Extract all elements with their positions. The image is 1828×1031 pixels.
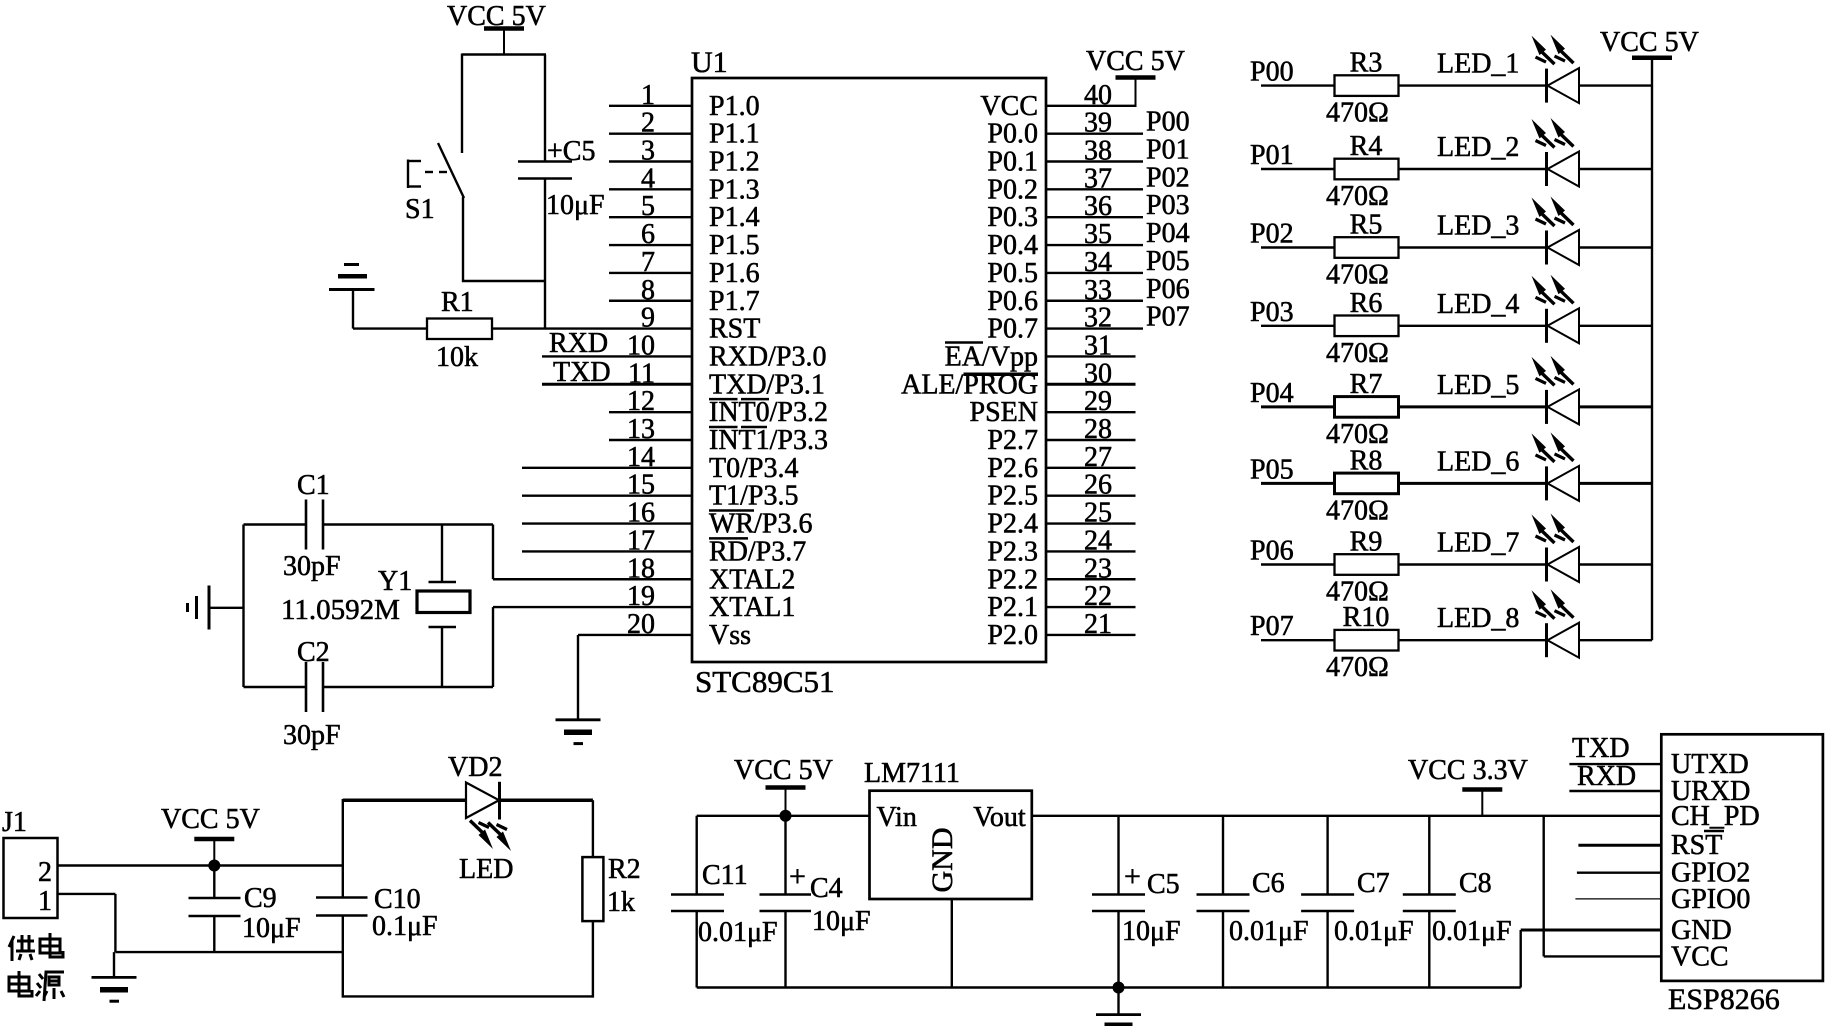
svg-text:VCC 5V: VCC 5V: [1086, 46, 1185, 77]
resistor R3: [1335, 75, 1399, 96]
svg-text:470Ω: 470Ω: [1326, 181, 1389, 212]
svg-text:P2.5: P2.5: [987, 481, 1038, 512]
wire R8 to LED_6: [1399, 482, 1547, 485]
svg-text:P1.3: P1.3: [709, 174, 760, 205]
svg-text:P0.3: P0.3: [987, 202, 1038, 233]
svg-text:RST: RST: [1671, 830, 1722, 861]
wire P03 to R6: [1261, 325, 1335, 327]
svg-text:P00: P00: [1250, 57, 1294, 88]
wire GPIO0 stub: [1575, 898, 1661, 900]
svg-text:CH_PD: CH_PD: [1671, 801, 1760, 832]
svg-text:P1.5: P1.5: [709, 230, 760, 261]
wire RST stub: [1578, 844, 1661, 847]
wire switch bottom branch: [462, 197, 464, 282]
svg-text:P03: P03: [1146, 190, 1190, 221]
power symbol VCC 5V LED bus: [1632, 56, 1672, 61]
resistor R9: [1335, 554, 1399, 575]
emission arrows LED_6: [1532, 433, 1547, 453]
ground (left-pointing, at crystal): [208, 586, 211, 630]
svg-text:P05: P05: [1146, 246, 1190, 277]
wire Vss down to ground: [577, 635, 579, 720]
wire ground to R1: [353, 327, 427, 329]
svg-text:P0.5: P0.5: [987, 258, 1038, 289]
overline RD (pin 17): [709, 537, 748, 540]
wire cap C5 top branch: [544, 55, 546, 162]
overline INT0 (pin 12): [709, 398, 738, 401]
module ESP8266 body: [1661, 734, 1823, 981]
svg-text:2: 2: [38, 857, 52, 888]
svg-text:30pF: 30pF: [283, 551, 341, 582]
wire P00 to R3: [1261, 84, 1335, 86]
svg-text:P0.0: P0.0: [987, 119, 1038, 150]
svg-text:VCC 5V: VCC 5V: [734, 755, 833, 786]
junction dot LM7111 input: [780, 810, 792, 822]
wire pin 23: [1046, 578, 1136, 580]
wire to ground bottom: [1117, 988, 1119, 1015]
svg-text:VD2: VD2: [448, 752, 502, 783]
power symbol VCC 5V pin40: [1116, 75, 1156, 80]
resistor R4: [1335, 159, 1399, 180]
wire pin 34: [1046, 272, 1143, 274]
svg-text:R2: R2: [608, 854, 641, 885]
svg-text:LED_3: LED_3: [1437, 211, 1519, 242]
svg-text:LED_8: LED_8: [1437, 603, 1519, 634]
wire pin 11 TXD: [542, 383, 692, 386]
wire top split: [462, 53, 546, 55]
wire P01 to R4: [1261, 168, 1335, 170]
svg-text:0.1μF: 0.1μF: [372, 911, 438, 942]
ground below J1 rail: [92, 976, 137, 979]
wire pin 21: [1046, 634, 1136, 636]
svg-text:P02: P02: [1146, 162, 1190, 193]
wire J1 pin1 down: [114, 894, 116, 952]
wire RXD to URXD: [1569, 790, 1661, 792]
svg-text:P01: P01: [1250, 140, 1294, 171]
wire loop bottom: [343, 995, 593, 997]
svg-text:P1.1: P1.1: [709, 119, 760, 150]
overline INT1 (pin 13): [709, 426, 738, 429]
emission arrows LED_8: [1532, 590, 1547, 610]
svg-text:Vin: Vin: [877, 802, 917, 833]
wire bottom gnd rail: [697, 986, 1521, 988]
svg-text:P02: P02: [1250, 219, 1294, 250]
svg-text:S1: S1: [405, 194, 435, 225]
svg-text:470Ω: 470Ω: [1326, 338, 1389, 369]
svg-text:10μF: 10μF: [1122, 916, 1181, 947]
wire pin 6: [609, 244, 692, 246]
LED LED_6: [1545, 466, 1548, 500]
wire pin 10 RXD: [542, 355, 692, 357]
wire pin 2: [609, 132, 692, 134]
wire J1 pin2 to VCC net: [58, 864, 343, 866]
wire LM7111 GND down: [951, 899, 953, 988]
power symbol VCC 5V top-left: [484, 26, 524, 31]
svg-text:C6: C6: [1252, 868, 1285, 899]
wire pin 8: [609, 300, 692, 302]
emission arrows LED_3: [1532, 198, 1547, 218]
wire pin 24: [1046, 550, 1136, 552]
emission arrows LED_5: [1532, 357, 1547, 377]
svg-text:GPIO0: GPIO0: [1671, 884, 1750, 915]
wire R6 to LED_4: [1399, 325, 1547, 327]
svg-text:LED_2: LED_2: [1437, 132, 1519, 163]
svg-text:RXD: RXD: [549, 328, 608, 359]
svg-text:R1: R1: [441, 287, 474, 318]
overline PROG (pin 30): [964, 373, 1039, 377]
capacitor C6: [1222, 816, 1224, 895]
svg-text:RXD/P3.0: RXD/P3.0: [709, 341, 826, 372]
capacitor C10 (in left edge of loop): [342, 799, 344, 898]
wire LED_5 to VCC bus: [1579, 405, 1652, 408]
svg-text:U1: U1: [691, 46, 728, 79]
wire LED_3 to VCC bus: [1579, 246, 1652, 248]
svg-text:RST: RST: [709, 314, 760, 345]
svg-text:470Ω: 470Ω: [1326, 495, 1389, 526]
svg-text:C1: C1: [297, 470, 330, 501]
LED LED_8: [1545, 623, 1548, 657]
svg-text:P1.0: P1.0: [709, 91, 760, 122]
wire pin 7: [609, 272, 692, 274]
diode VD2: [466, 783, 499, 819]
svg-text:C5: C5: [1147, 869, 1180, 900]
svg-text:VCC 5V: VCC 5V: [1600, 27, 1699, 58]
power symbol VCC 5V at J1: [194, 837, 234, 842]
LED LED_1: [1545, 69, 1548, 103]
wire loop right upper: [592, 800, 594, 857]
svg-text:XTAL2: XTAL2: [709, 564, 795, 595]
label 供电 (power supply) hand-drawn: [9, 933, 63, 961]
svg-text:P00: P00: [1146, 107, 1190, 138]
regulator LM7111 body: [870, 791, 1032, 899]
svg-text:P05: P05: [1250, 454, 1294, 485]
resistor R8: [1335, 473, 1399, 494]
svg-text:EA/Vpp: EA/Vpp: [945, 341, 1038, 372]
svg-text:P0.6: P0.6: [987, 286, 1038, 317]
svg-text:STC89C51: STC89C51: [695, 664, 835, 699]
svg-text:LED_5: LED_5: [1437, 370, 1519, 401]
wire input rail to Vin: [697, 815, 870, 817]
svg-text:P1.7: P1.7: [709, 286, 760, 317]
emission arrows LED_4: [1532, 276, 1547, 296]
wire pin 28: [1046, 439, 1136, 441]
wire switch top branch: [461, 54, 463, 154]
svg-text:RD/P3.7: RD/P3.7: [709, 536, 806, 567]
wire pin 26: [1046, 495, 1136, 497]
svg-text:P0.4: P0.4: [987, 230, 1038, 261]
wire to ESP GND: [1521, 929, 1662, 932]
overline EA (pin 31): [945, 341, 983, 344]
svg-text:+: +: [789, 860, 806, 893]
svg-text:+C5: +C5: [547, 136, 595, 167]
svg-text:P2.0: P2.0: [987, 620, 1038, 651]
wire pin 16: [522, 522, 692, 524]
svg-text:TXD/P3.1: TXD/P3.1: [709, 369, 825, 400]
svg-text:470Ω: 470Ω: [1326, 260, 1389, 291]
wire pin 38: [1046, 160, 1143, 162]
wire 3.3V down to ESP VCC: [1542, 816, 1544, 957]
wire P07 to R10: [1261, 639, 1335, 641]
svg-text:Vss: Vss: [709, 620, 751, 651]
svg-text:C8: C8: [1459, 868, 1492, 899]
svg-text:J1: J1: [2, 807, 27, 838]
svg-text:C11: C11: [702, 860, 748, 891]
svg-text:Y1: Y1: [378, 566, 412, 597]
wire pin 13: [609, 439, 692, 441]
capacitor C5 (electrolytic, top-left): [518, 160, 572, 163]
svg-text:0.01μF: 0.01μF: [1229, 916, 1309, 947]
wire loop top-left: [343, 798, 466, 802]
resistor R5: [1335, 237, 1399, 258]
LED LED_7: [1545, 548, 1548, 582]
svg-text:P1.6: P1.6: [709, 258, 760, 289]
wire LED VCC bus: [1651, 58, 1653, 640]
wire pin 5: [609, 216, 692, 218]
svg-text:P07: P07: [1250, 611, 1294, 642]
LED LED_4: [1545, 309, 1548, 343]
wire LED_1 to VCC bus: [1579, 84, 1652, 86]
power symbol VCC 3.3V: [1462, 787, 1502, 792]
svg-text:R3: R3: [1350, 48, 1383, 79]
wire pin 30: [1046, 383, 1136, 386]
resistor R7: [1335, 397, 1399, 418]
wire pin 4: [609, 188, 692, 190]
svg-text:P2.6: P2.6: [987, 453, 1038, 484]
wire pin 29: [1046, 411, 1136, 413]
svg-text:10μF: 10μF: [546, 190, 605, 221]
capacitor C8: [1428, 816, 1430, 895]
svg-text:10μF: 10μF: [242, 913, 301, 944]
svg-text:P06: P06: [1146, 274, 1190, 305]
svg-text:GND: GND: [926, 828, 959, 893]
svg-text:INT1/P3.3: INT1/P3.3: [709, 425, 828, 456]
wire loop to XTAL1: [492, 607, 494, 687]
svg-text:1: 1: [38, 886, 52, 917]
svg-text:VCC: VCC: [980, 91, 1038, 122]
overline WR (pin 16): [709, 509, 754, 512]
wire LED_2 to VCC bus: [1579, 168, 1652, 170]
wire pin 17: [522, 550, 692, 552]
wire gnd rail up: [1519, 930, 1521, 988]
overline RST T: [1704, 830, 1724, 833]
wire pin 31: [1046, 355, 1136, 357]
wire crystal loop bottom-right: [323, 686, 493, 688]
junction dot gnd rail: [1113, 982, 1125, 994]
svg-text:LED_1: LED_1: [1437, 49, 1519, 80]
ground below Vss: [556, 718, 601, 721]
svg-text:TXD: TXD: [1572, 733, 1630, 764]
svg-text:11.0592M: 11.0592M: [281, 594, 400, 626]
emission arrows VD2: [479, 830, 494, 850]
svg-text:C9: C9: [244, 883, 277, 914]
wire J1 pin1: [58, 893, 116, 895]
svg-text:0.01μF: 0.01μF: [1432, 916, 1512, 947]
wire pin 25: [1046, 522, 1136, 524]
wire loop top-right: [500, 798, 593, 802]
emission arrows LED_2: [1532, 119, 1547, 139]
wire pin 14: [522, 467, 692, 469]
svg-text:ESP8266: ESP8266: [1668, 983, 1780, 1016]
wire pin 32: [1046, 327, 1143, 329]
wire to ground: [113, 952, 115, 977]
svg-text:LED: LED: [459, 854, 513, 885]
wire R1 to RST pin 9: [492, 327, 692, 329]
svg-text:P1.2: P1.2: [709, 147, 760, 178]
wire pin 37: [1046, 188, 1143, 190]
wire R5 to LED_3: [1399, 246, 1547, 248]
svg-text:P03: P03: [1250, 297, 1294, 328]
wire TXD to UTXD: [1569, 763, 1661, 765]
wire pin 18 XTAL2: [493, 578, 692, 580]
wire LED_7 to VCC bus: [1579, 563, 1652, 565]
wire pin 39: [1046, 132, 1143, 134]
capacitor C1: [305, 500, 308, 550]
svg-text:30pF: 30pF: [283, 720, 341, 751]
wire pin 22: [1046, 606, 1136, 608]
connector J1: [4, 838, 58, 918]
svg-text:LED_6: LED_6: [1437, 446, 1519, 477]
svg-text:VCC 5V: VCC 5V: [161, 804, 260, 835]
wire pin 3: [609, 160, 692, 162]
svg-text:0.01μF: 0.01μF: [1334, 916, 1414, 947]
IC U1 STC89C51 body: [692, 78, 1046, 662]
wire pin 40 VCC: [1046, 105, 1136, 107]
LED LED_2: [1545, 152, 1548, 186]
svg-text:C7: C7: [1357, 868, 1390, 899]
resistor R1: [427, 319, 492, 340]
svg-text:P04: P04: [1250, 378, 1294, 409]
wire R7 to LED_5: [1399, 405, 1547, 408]
wire crystal loop bottom-left: [244, 686, 307, 688]
capacitor C7: [1326, 816, 1328, 895]
wire bottom gnd rail left: [115, 951, 342, 953]
svg-text:P2.7: P2.7: [987, 425, 1038, 456]
wire pin 35: [1046, 244, 1143, 246]
svg-text:T0/P3.4: T0/P3.4: [709, 453, 798, 484]
wire crystal loop left: [242, 525, 244, 688]
svg-text:R6: R6: [1350, 288, 1383, 319]
capacitor C2: [305, 662, 308, 712]
wire P02 to R5: [1261, 246, 1335, 248]
resistor R2: [582, 857, 603, 921]
wire pin 20 Vss: [578, 634, 692, 636]
svg-text:P07: P07: [1146, 302, 1190, 333]
power symbol VCC 5V at LM7111: [766, 785, 806, 790]
svg-text:Vout: Vout: [973, 802, 1026, 833]
crystal Y1: [441, 525, 443, 583]
wire GPIO2 stub: [1577, 872, 1661, 874]
junction dot J1 VCC: [208, 860, 220, 872]
wire R4 to LED_2: [1399, 168, 1547, 170]
svg-text:P0.2: P0.2: [987, 174, 1038, 205]
svg-text:10μF: 10μF: [812, 906, 871, 937]
svg-text:P0.1: P0.1: [987, 147, 1038, 178]
svg-text:P0.7: P0.7: [987, 314, 1038, 345]
wire pin 19 XTAL1: [493, 606, 692, 608]
svg-text:10k: 10k: [436, 342, 478, 373]
resistor R10: [1335, 630, 1399, 651]
svg-text:RXD: RXD: [1577, 761, 1636, 792]
wire to ESP VCC: [1544, 955, 1662, 957]
svg-text:T1/P3.5: T1/P3.5: [709, 481, 798, 512]
wire C5 branch down to RST net: [544, 281, 546, 329]
svg-text:P04: P04: [1146, 218, 1190, 249]
emission arrows LED_1: [1532, 36, 1547, 56]
capacitor C9: [213, 866, 215, 899]
wire Vout 3.3V rail to CH_PD: [1032, 815, 1662, 817]
switch S1: [438, 143, 464, 198]
ground (inverted, above R1): [344, 263, 359, 266]
wire P05 to R8: [1261, 482, 1335, 485]
svg-text:R10: R10: [1343, 602, 1390, 633]
emission arrows LED_7: [1532, 515, 1547, 535]
wire P04 to R7: [1261, 405, 1335, 408]
svg-text:P1.4: P1.4: [709, 202, 760, 233]
ground bottom center: [1096, 1013, 1141, 1016]
capacitor C4 (electrolytic): [784, 816, 786, 895]
svg-text:P2.3: P2.3: [987, 536, 1038, 567]
wire R3 to LED_1: [1399, 84, 1547, 86]
LED LED_5: [1545, 390, 1548, 424]
wire LED_6 to VCC bus: [1579, 482, 1652, 485]
LED LED_3: [1545, 231, 1548, 265]
label 电源 (source) hand-drawn: [9, 971, 64, 1001]
capacitor C5: [1117, 816, 1119, 895]
wire pin 1: [609, 105, 692, 107]
wire R10 to LED_8: [1399, 639, 1547, 641]
wire pin 12: [609, 411, 692, 413]
svg-text:0.01μF: 0.01μF: [698, 917, 778, 948]
capacitor C11: [696, 816, 698, 895]
svg-text:C2: C2: [297, 637, 330, 668]
svg-text:WR/P3.6: WR/P3.6: [709, 509, 812, 540]
svg-text:R5: R5: [1350, 210, 1383, 241]
svg-text:LED_7: LED_7: [1437, 528, 1519, 559]
wire LED_8 to VCC bus: [1579, 639, 1652, 641]
svg-text:VCC 3.3V: VCC 3.3V: [1408, 755, 1528, 786]
svg-text:VCC: VCC: [1671, 941, 1729, 972]
svg-text:R9: R9: [1350, 527, 1383, 558]
svg-text:LM7111: LM7111: [864, 758, 960, 789]
svg-text:9: 9: [641, 303, 655, 334]
svg-text:R4: R4: [1350, 131, 1383, 162]
resistor R6: [1335, 316, 1399, 337]
wire R9 to LED_7: [1399, 563, 1547, 565]
svg-text:470Ω: 470Ω: [1326, 652, 1389, 683]
wire loop right lower: [592, 921, 594, 998]
svg-text:INT0/P3.2: INT0/P3.2: [709, 397, 828, 428]
svg-text:470Ω: 470Ω: [1326, 98, 1389, 129]
wire loop to XTAL2: [492, 525, 494, 580]
wire bottom join: [462, 280, 546, 282]
wire pin 33: [1046, 300, 1143, 302]
svg-text:LED_4: LED_4: [1437, 289, 1519, 320]
svg-text:P06: P06: [1250, 536, 1294, 567]
wire pin 27: [1046, 467, 1136, 469]
wire P06 to R9: [1261, 563, 1335, 565]
wire crystal loop top-right: [323, 523, 493, 525]
wire LED_4 to VCC bus: [1579, 325, 1652, 327]
svg-text:XTAL1: XTAL1: [709, 592, 795, 623]
svg-text:P2.4: P2.4: [987, 509, 1038, 540]
svg-text:P2.1: P2.1: [987, 592, 1038, 623]
svg-text:C4: C4: [810, 873, 843, 904]
svg-text:+: +: [1124, 860, 1141, 893]
svg-text:P2.2: P2.2: [987, 564, 1038, 595]
svg-text:P01: P01: [1146, 135, 1190, 166]
svg-text:1k: 1k: [607, 887, 635, 918]
wire pin 36: [1046, 216, 1143, 218]
wire pin 15: [522, 495, 692, 497]
